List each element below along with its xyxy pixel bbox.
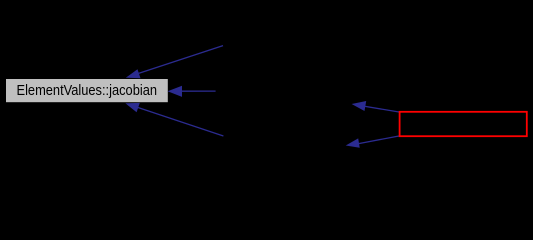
svg-text:ElementValues::jacobian: ElementValues::jacobian xyxy=(17,83,158,99)
node: truncated node (red border, hidden black label) xyxy=(400,112,527,136)
wire: edge 2 horizontal from hidden middle caller to jacobian xyxy=(168,86,216,97)
wire: edge 1 from hidden upper caller to jacobian xyxy=(126,46,223,79)
wire: edge 3 from hidden lower caller to jacobian xyxy=(125,103,223,136)
wire: edge 5 from red truncated node to hidden node (lower) xyxy=(346,136,399,148)
node ElementValues::jacobian (current node, grey fill) xyxy=(6,79,168,102)
wire: edge 4 from red truncated node to hidden node (upper) xyxy=(352,101,399,112)
